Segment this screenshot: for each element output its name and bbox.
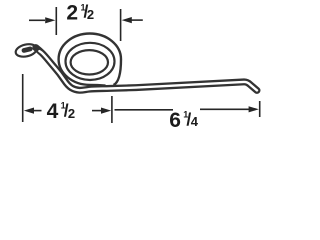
dim 6 1/4 arrowhead [249, 106, 259, 112]
top dim left shaft [29, 19, 45, 21]
svg-text:6: 6 [169, 109, 181, 132]
svg-text:2: 2 [87, 7, 94, 22]
dim 6 1/4 left shaft [115, 109, 174, 111]
top dimension 2 1/2 [29, 7, 143, 41]
wire end loop (outline ring) [14, 42, 38, 58]
wire white core (makes double-line outline) [39, 51, 257, 90]
bottom right extension line [259, 101, 261, 117]
dim 4 1/2 right arrowhead [101, 108, 111, 114]
label 6 1/4 [169, 109, 198, 132]
coil turn 2 [66, 43, 115, 80]
svg-text:2: 2 [68, 106, 75, 121]
bottom dimensions [23, 74, 260, 123]
dim 4 1/2 left arrowhead [24, 108, 34, 114]
dim 4 1/2 right shaft [92, 110, 102, 112]
coil turn 1 (outer, merges into leg at right) [59, 34, 121, 86]
top dim left extension line [55, 7, 57, 35]
top dim right shaft [132, 19, 143, 21]
top dim left arrowhead [45, 17, 55, 23]
wire strand, bottom sweep, right leg, bent tip (outline) [36, 48, 257, 91]
middle extension line [111, 96, 113, 123]
top dim right extension line [120, 9, 122, 41]
wire free end tip inside loop [24, 49, 30, 51]
svg-text:4: 4 [191, 114, 199, 129]
label 4 1/2 [47, 100, 76, 123]
svg-text:4: 4 [47, 100, 59, 123]
bottom left extension line [22, 74, 24, 122]
top dim right arrowhead [122, 17, 132, 23]
dim 4 1/2 left shaft [34, 110, 42, 112]
label 2 1/2 [66, 2, 94, 25]
dim 6 1/4 right shaft [200, 108, 250, 110]
coil turn 3 (innermost) [71, 50, 108, 74]
svg-text:2: 2 [66, 2, 78, 25]
